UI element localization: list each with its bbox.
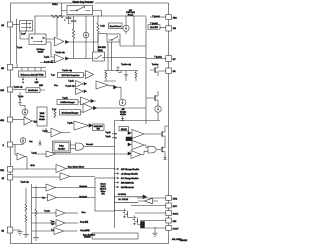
svg-text:SW BW2: SW BW2 (98, 47, 106, 49)
svg-text:+4 Charge Enable: +4 Charge Enable (121, 173, 139, 176)
svg-text:HP: HP (173, 59, 177, 61)
svg-text:T-gain alg: T-gain alg (20, 182, 28, 184)
svg-text:1BB: 1BB (35, 82, 39, 84)
svg-text:T-gain: T-gain (31, 153, 36, 155)
svg-text:1B0: 1B0 (0, 90, 5, 92)
svg-text:Bit(n): Bit(n) (98, 49, 103, 52)
svg-text:T-palm: T-palm (44, 210, 50, 212)
svg-text:1 kΩ: 1 kΩ (100, 26, 105, 28)
svg-text:Ready: Ready (128, 14, 134, 16)
svg-text:6B: 6B (1, 231, 4, 233)
svg-text:Ref Electrode: Ref Electrode (121, 186, 135, 189)
svg-text:T-gain: T-gain (44, 56, 50, 58)
svg-text:T-pulse alg: T-pulse alg (62, 70, 72, 72)
svg-text:Imp: Imp (29, 141, 32, 143)
svg-text:Fan: Fan (54, 85, 57, 87)
svg-text:RDY: RDY (173, 206, 178, 208)
svg-text:T-gain alg: T-gain alg (14, 86, 23, 88)
svg-text:WBB: WBB (40, 113, 45, 115)
svg-text:BB Hz/100 Hz: BB Hz/100 Hz (121, 183, 134, 185)
svg-text:Stable: Stable (39, 118, 46, 121)
svg-text:Reference, Ext 2.5V PBM: Reference, Ext 2.5V PBM (21, 73, 44, 76)
svg-text:Ref-In/A: Ref-In/A (79, 196, 87, 199)
svg-text:Base Batt/2nd: Base Batt/2nd (83, 233, 95, 236)
svg-text:Watch-Dog Detector: Watch-Dog Detector (73, 1, 94, 4)
svg-text:Multi ADC: Multi ADC (94, 125, 103, 128)
svg-text:T (palm): T (palm) (154, 56, 162, 58)
svg-text:INT1: INT1 (173, 198, 178, 200)
svg-text:P-gain alg: P-gain alg (65, 85, 74, 87)
svg-text:4BB: 4BB (0, 120, 5, 122)
svg-text:10V Charge Enable: 10V Charge Enable (121, 169, 140, 171)
svg-text:T-palm alg: T-palm alg (55, 52, 64, 54)
svg-text:Rectifier: Rectifier (58, 147, 65, 150)
svg-text:Amp-(M): Amp-(M) (80, 221, 88, 224)
svg-text:1: 1 (22, 82, 24, 84)
svg-text:Bass Harts Meter: Bass Harts Meter (68, 165, 85, 168)
svg-text:B: B (3, 145, 5, 147)
svg-text:T-gain: T-gain (17, 47, 23, 49)
svg-text:NB: NB (1, 68, 5, 70)
svg-text:T-gain: T-gain (68, 80, 74, 82)
svg-text:T-pulse alg: T-pulse alg (121, 64, 131, 66)
svg-text:Gen: Gen (82, 212, 87, 214)
svg-text:4× BB bit: 4× BB bit (118, 193, 126, 196)
svg-text:T-gain: T-gain (105, 136, 110, 138)
svg-text:64 - 128 bit: 64 - 128 bit (119, 198, 129, 201)
svg-text:T-gain: T-gain (62, 97, 68, 99)
svg-text:T-ref: T-ref (52, 109, 57, 111)
svg-text:Batterie: Batterie (80, 185, 88, 188)
svg-text:AB1: AB1 (173, 16, 178, 19)
svg-text:T-gain: T-gain (67, 123, 73, 125)
svg-text:AB: AB (1, 24, 4, 27)
svg-text:SBAS12: SBAS12 (180, 239, 187, 242)
svg-text:T-ps: T-ps (51, 75, 55, 77)
svg-text:T-gain: T-gain (18, 96, 24, 98)
svg-text:GN: GN (173, 28, 177, 30)
svg-text:ModScaler: ModScaler (28, 90, 38, 92)
svg-text:1BB: 1BB (39, 85, 43, 87)
svg-text:SDBBB: SDBBB (84, 237, 91, 239)
svg-text:4B in: 4B in (30, 165, 34, 167)
svg-text:Ter: Ter (42, 197, 45, 200)
svg-text:Forward: Forward (86, 143, 93, 146)
svg-text:T-ref: T-ref (21, 33, 26, 35)
svg-text:Pulse: Pulse (59, 145, 64, 147)
svg-text:Amp-(M1): Amp-(M1) (80, 229, 90, 232)
svg-text:BB: BB (173, 71, 176, 73)
svg-text:Stable: Stable (38, 51, 45, 54)
svg-text:SPI: SPI (101, 194, 105, 196)
svg-text:Stable: Stable (120, 113, 127, 116)
svg-text:BW: BW (97, 129, 100, 131)
svg-text:SDsM: SDsM (121, 129, 127, 131)
svg-text:TRX: TRX (0, 170, 5, 172)
svg-text:MCU Ext TempCont: MCU Ext TempCont (62, 74, 80, 77)
svg-text:T-gain: T-gain (105, 132, 110, 134)
svg-text:20-k BW: 20-k BW (150, 27, 158, 29)
svg-text:SW-1: SW-1 (52, 4, 58, 6)
svg-text:4B: 4B (1, 178, 4, 180)
svg-text:3-7 Charge Enable: 3-7 Charge Enable (121, 178, 139, 180)
svg-text:T-ps: T-ps (51, 224, 55, 226)
svg-text:RefElecCharger: RefElecCharger (60, 102, 75, 104)
svg-text:P-gain alg: P-gain alg (44, 61, 53, 63)
svg-text:DIN: DIN (173, 221, 177, 223)
svg-text:Modulator/Charger: Modulator/Charger (62, 112, 79, 115)
svg-text:SCLK: SCLK (173, 213, 179, 215)
svg-text:DOUT: DOUT (173, 228, 179, 230)
svg-text:Band Detect: Band Detect (110, 25, 121, 28)
